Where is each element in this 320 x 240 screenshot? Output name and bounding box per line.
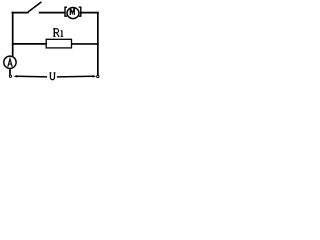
wire motor to top-right corner bbox=[81, 12, 98, 14]
wire resistor branch right lead bbox=[72, 43, 98, 45]
label A inside ammeter circle bbox=[8, 59, 12, 67]
label R1 : letter R bbox=[53, 29, 59, 37]
wire U-arrow left segment bbox=[17, 75, 46, 78]
node right terminal open circle bbox=[97, 75, 99, 77]
wire top-left horizontal bbox=[12, 12, 27, 14]
voltage arrowhead pointing left at left node bbox=[14, 75, 18, 78]
ammeter A circle bbox=[4, 56, 16, 68]
wire U-arrow right segment bbox=[58, 75, 93, 78]
label M inside motor circle bbox=[70, 8, 74, 15]
voltage arrowhead pointing right at right node bbox=[93, 75, 96, 78]
resistor R1 box bbox=[46, 39, 71, 48]
motor M left brush bracket bbox=[65, 7, 66, 16]
wire left vertical bbox=[12, 13, 14, 56]
wire right vertical bbox=[97, 13, 99, 75]
switch S blade bbox=[29, 2, 41, 11]
wire ammeter bottom stub bbox=[9, 69, 11, 74]
label U between arrows bbox=[50, 73, 56, 80]
wire switch to motor bbox=[40, 12, 65, 14]
motor M right brush bracket bbox=[80, 7, 81, 16]
label R1 : subscript 1 bbox=[61, 30, 64, 36]
motor M circle bbox=[67, 8, 79, 19]
node left terminal open circle bbox=[9, 75, 11, 77]
wire resistor branch left lead bbox=[13, 43, 46, 45]
